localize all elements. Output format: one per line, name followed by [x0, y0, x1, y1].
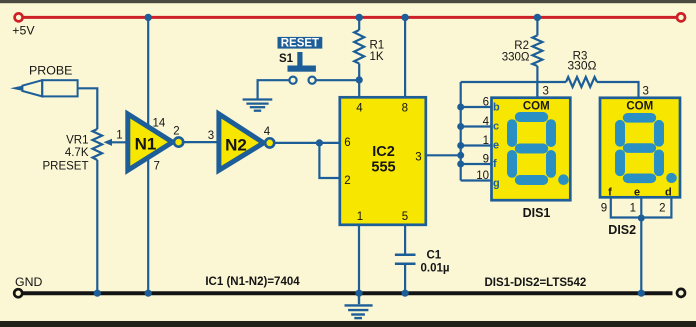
svg-text:PRESET: PRESET [42, 161, 88, 173]
wire stub pin 4 (c) [461, 125, 492, 127]
digit 8 DIS2 [620, 118, 674, 181]
svg-text:4: 4 [356, 103, 363, 115]
node pin1-GND [355, 290, 362, 297]
node bus-pin3 [457, 152, 464, 159]
wire IC2 pin 5 to C1 [404, 225, 406, 254]
svg-text:c: c [493, 121, 499, 133]
svg-text:1: 1 [116, 130, 122, 142]
resistor R1 [358, 18, 360, 30]
wire probe to VR1 [78, 88, 98, 129]
node DIS2-GND [638, 290, 645, 297]
node bus-b [457, 104, 464, 111]
svg-text:6: 6 [483, 97, 489, 109]
wire R3 to DIS2 COM [597, 82, 639, 99]
digit 8 DIS1 [512, 117, 566, 182]
svg-text:8: 8 [402, 103, 408, 115]
svg-text:3: 3 [643, 86, 649, 98]
svg-text:RESET: RESET [281, 38, 319, 50]
switch S1 actuator [297, 52, 302, 67]
svg-text:DIS1: DIS1 [523, 206, 551, 220]
svg-text:2: 2 [344, 175, 350, 187]
node N1-GND [145, 290, 152, 297]
node bus-e [457, 142, 464, 149]
svg-text:f: f [493, 158, 497, 170]
resistor R3 [566, 77, 597, 87]
wire stub pin 9 (f) [461, 163, 492, 165]
svg-text:DIS1-DIS2=LTS542: DIS1-DIS2=LTS542 [485, 277, 587, 289]
node bus-f [457, 161, 464, 168]
display DIS2 [600, 98, 680, 198]
node C1-GND [402, 290, 409, 297]
bus DIS1 segment pins [460, 82, 462, 181]
terminal GND right [677, 289, 685, 297]
svg-text:d: d [665, 186, 672, 198]
node rail-R2 [534, 14, 541, 21]
svg-text:N1: N1 [135, 135, 157, 154]
terminal +5V left [15, 13, 23, 21]
svg-text:9: 9 [601, 203, 607, 215]
svg-text:R1: R1 [370, 40, 385, 52]
svg-text:e: e [493, 140, 499, 152]
node VR1-GND [94, 290, 101, 297]
wire rail to N1 pin 14 [147, 18, 149, 127]
probe PROBE [22, 80, 77, 96]
ic IC2 555 [340, 97, 426, 225]
capacitor C1 [395, 254, 416, 257]
svg-text:4.7K: 4.7K [65, 147, 89, 159]
svg-text:330Ω: 330Ω [568, 59, 597, 73]
svg-text:3: 3 [415, 152, 421, 164]
svg-text:S1: S1 [279, 53, 294, 65]
svg-text:2: 2 [173, 126, 179, 138]
svg-text:e: e [634, 186, 640, 198]
node DIS2 pin1 [638, 215, 645, 222]
label RESET [278, 37, 323, 49]
svg-text:4: 4 [483, 116, 490, 128]
svg-text:GND: GND [15, 275, 42, 289]
svg-text:6: 6 [344, 137, 350, 149]
pins bracket DIS2 [611, 197, 672, 217]
node N2 output junction [316, 139, 323, 146]
svg-text:1: 1 [357, 211, 363, 223]
inverter N1 [128, 114, 173, 170]
svg-text:C1: C1 [427, 249, 442, 261]
svg-text:IC2: IC2 [372, 144, 395, 160]
wire GND rail [23, 291, 673, 295]
svg-text:VR1: VR1 [66, 135, 88, 147]
svg-text:IC1 (N1-N2)=7404: IC1 (N1-N2)=7404 [205, 276, 300, 288]
node rail-R1 [356, 14, 363, 21]
svg-text:0.01µ: 0.01µ [421, 262, 450, 274]
wire stub pin 6 (b) [461, 106, 492, 108]
wire DIS2 pin 1 to GND [640, 218, 642, 291]
wire stub pin 10 (g) [461, 179, 492, 181]
wire IC2 pin 1 to GND [358, 225, 360, 292]
node rail-pin8 [401, 14, 408, 21]
svg-text:+5V: +5V [12, 24, 35, 38]
svg-text:3: 3 [208, 130, 214, 142]
wire S1 to R1/pin4 junction [316, 79, 359, 81]
display DIS1 [492, 98, 571, 201]
ground main [345, 295, 373, 318]
wire rail to IC2 pin 8 [404, 18, 406, 98]
svg-text:555: 555 [371, 160, 395, 176]
svg-text:DIS2: DIS2 [608, 223, 636, 237]
svg-text:R2: R2 [514, 40, 529, 52]
svg-text:3: 3 [543, 86, 549, 98]
resistor R2 [536, 18, 538, 35]
wire IC2 pin 3 to bus [426, 154, 461, 156]
wire +5V rail [23, 16, 678, 19]
wire S1 to ground [258, 80, 290, 99]
wire COM node (bus top to R3 to DIS2) [461, 81, 566, 83]
svg-text:g: g [493, 178, 500, 190]
node R1-S1-pin4 [356, 76, 363, 83]
svg-text:1K: 1K [370, 51, 384, 63]
svg-text:14: 14 [153, 118, 166, 130]
wire stub pin 1 (e) [461, 144, 492, 146]
wire N1 pin 7 to GND [147, 157, 149, 292]
svg-text:9: 9 [483, 154, 489, 166]
ground S1 [243, 100, 273, 111]
wire R2 to DIS1 COM [536, 82, 538, 99]
wire C1 to GND [404, 265, 406, 291]
wire N2 to IC2 pin 6 [274, 142, 340, 144]
svg-text:10: 10 [476, 170, 489, 182]
svg-text:1: 1 [630, 203, 636, 215]
terminal +5V right [677, 13, 685, 21]
bottom border [0, 321, 696, 327]
svg-text:1: 1 [483, 135, 489, 147]
svg-text:330Ω: 330Ω [502, 52, 530, 64]
terminal GND left [14, 289, 22, 297]
switch S1 contacts [289, 77, 296, 84]
svg-text:PROBE: PROBE [29, 64, 72, 78]
svg-text:COM: COM [523, 100, 550, 112]
svg-text:5: 5 [402, 211, 408, 223]
svg-text:N2: N2 [225, 136, 247, 155]
node bus-c [457, 123, 464, 130]
wiper arrow VR1 [111, 141, 128, 143]
node rail-N1 [145, 14, 152, 21]
svg-text:2: 2 [659, 203, 665, 215]
inverter N2 [219, 114, 264, 170]
resistor VR1 [93, 129, 103, 160]
svg-text:f: f [608, 186, 612, 198]
wire junction to IC2 pin 4 [358, 80, 360, 98]
wire N1 to N2 [183, 141, 218, 143]
svg-text:4: 4 [264, 126, 271, 138]
wire junction to IC2 pin 2 [319, 143, 340, 178]
svg-text:b: b [493, 102, 500, 114]
wire VR1 to GND [96, 160, 98, 292]
svg-text:COM: COM [626, 100, 653, 112]
svg-text:7: 7 [154, 161, 160, 173]
top border [0, 0, 696, 3]
